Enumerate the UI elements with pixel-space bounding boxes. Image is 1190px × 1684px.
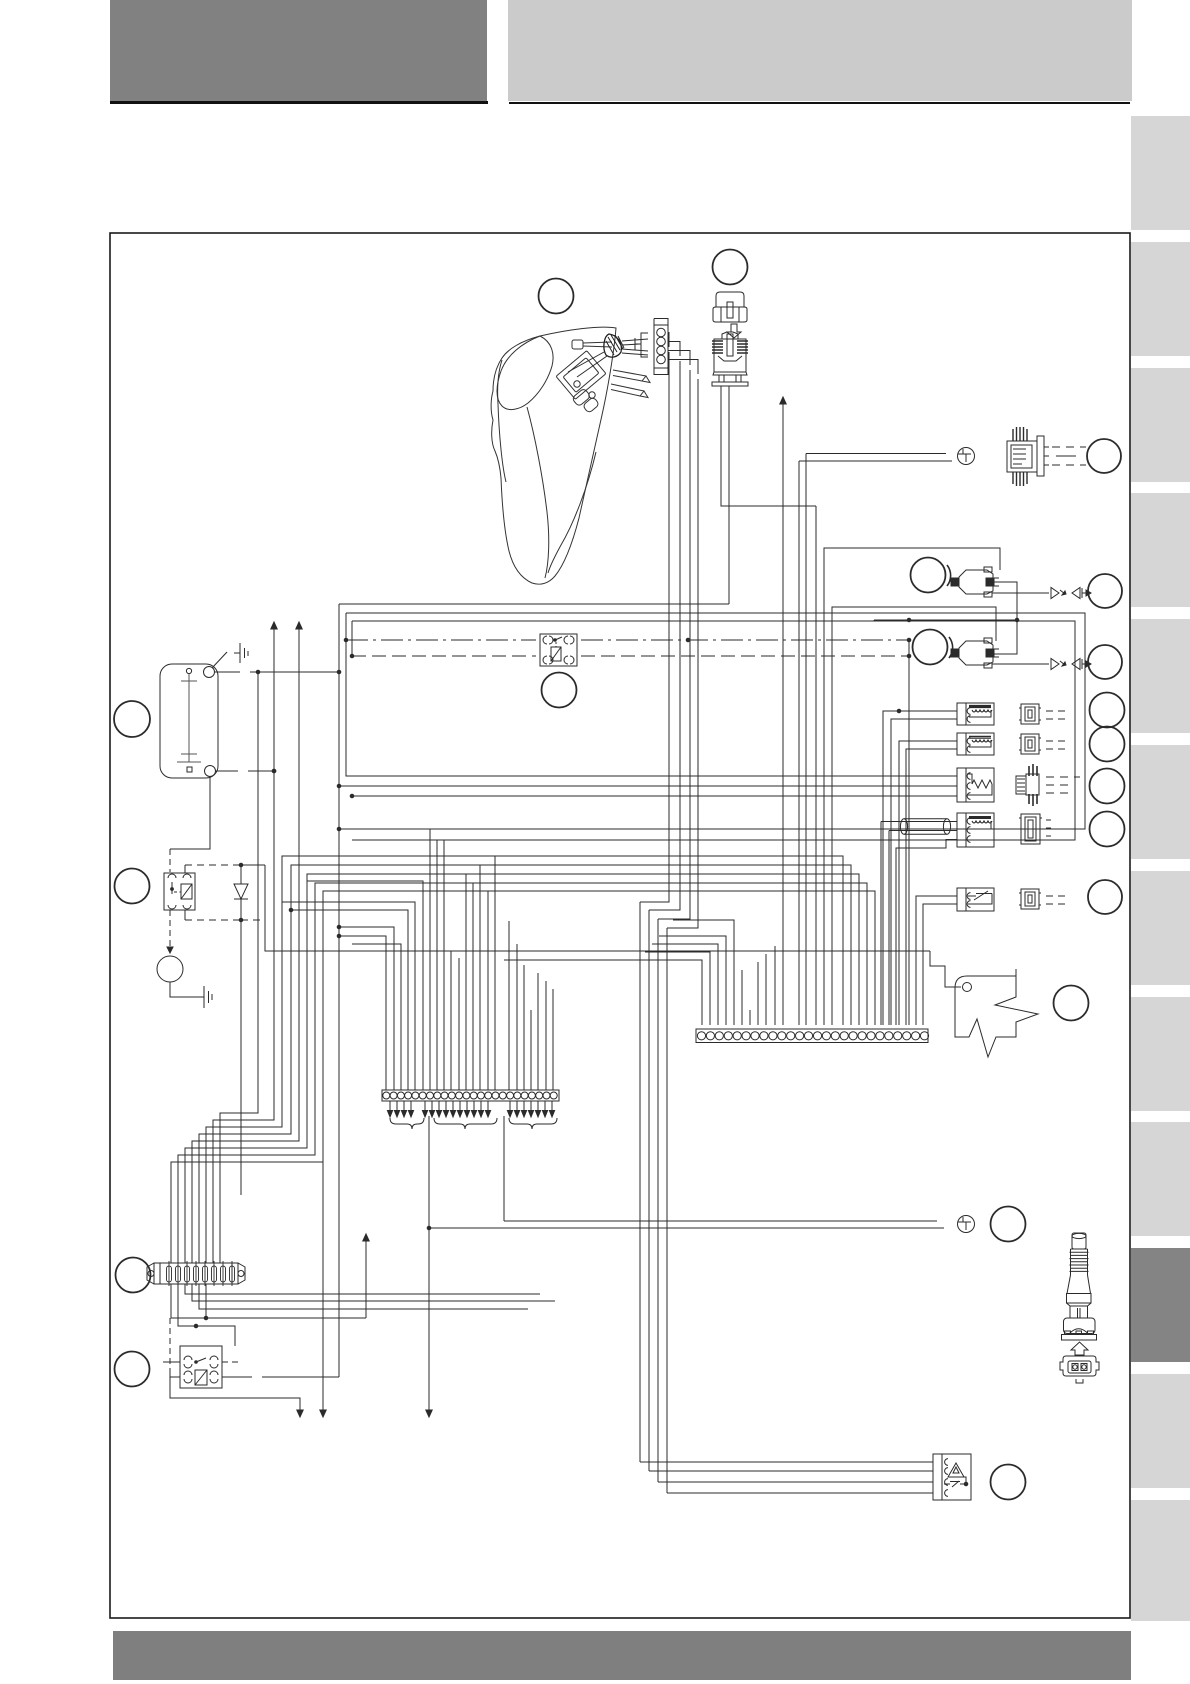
ECU stub 5: [741, 970, 743, 1025]
comb feed 5: [282, 902, 415, 1090]
fuse feed wire 2 (arrow): [213, 625, 274, 1263]
fuse feed wire 1: [220, 672, 258, 1263]
spark gap symbols coil1: [992, 588, 1091, 599]
comb feed 12: [465, 874, 467, 1090]
aux relay ground run: [170, 1377, 300, 1413]
callout circle (battery): [114, 701, 150, 737]
callout circle (diagnostic): [991, 1207, 1026, 1242]
ECU feed 2: [645, 952, 710, 1025]
callout circle 2 (coil1): [911, 558, 951, 593]
comb feed 3: [352, 944, 401, 1090]
callout circle 13: [1087, 439, 1121, 473]
comb feed 8: [436, 840, 438, 1090]
horn2 feed a: [899, 741, 957, 1025]
fuse feed wire 5 (arrow): [192, 625, 299, 1263]
battery B1: [160, 664, 218, 778]
starter motor M: [157, 956, 200, 997]
ground (starter motor): [198, 986, 212, 1008]
callout circle (aux relay): [115, 1352, 150, 1387]
voltage regulator box: [933, 1454, 971, 1500]
bottom footer gray bar: [113, 1631, 1131, 1680]
callout circle (main relay): [542, 673, 577, 708]
ignition coil 1: [951, 567, 999, 597]
comb feed 17: [508, 921, 510, 1090]
coil interconnect wires: [874, 582, 1019, 654]
frame symbol wiring: [930, 951, 961, 987]
comb tail wire A: [428, 1116, 430, 1413]
resistor box: [957, 768, 994, 802]
fuse outlet 5: [178, 1284, 235, 1346]
arrow up from fuse bus: [365, 1238, 367, 1318]
horn 2 box: [957, 733, 994, 755]
wire pair to ground terminal: [799, 454, 952, 1026]
main harness bundles: [163, 506, 1085, 1417]
fuse feed wire 7: [178, 883, 867, 1263]
horn 2 connector: [1019, 734, 1065, 754]
start relay dashed enclosure top: [185, 863, 265, 873]
ECU stub 9: [774, 946, 776, 1025]
comb feed 10: [450, 951, 452, 1090]
comb feed 15: [487, 891, 489, 1090]
fuse outlet 3: [199, 1284, 528, 1309]
big loop bus C2: [352, 621, 1075, 840]
diode D1: [234, 865, 248, 1195]
injector body INJ: [712, 332, 748, 386]
brace group 2: [434, 1118, 497, 1129]
thermistor connector: [1019, 889, 1065, 909]
spark plug cap connector: [1060, 1356, 1099, 1383]
ignition switch lever: [212, 652, 227, 668]
sensor bus wire 2: [339, 785, 957, 787]
speed sensor connector: [1019, 814, 1051, 844]
injector connector cap: [713, 292, 747, 322]
ECU stub 7: [757, 962, 759, 1025]
start relay RL1: [164, 873, 195, 910]
fuse feed wire 6: [185, 874, 859, 1263]
hose stubs: [611, 370, 650, 398]
aux relay wire left: [163, 1361, 180, 1363]
thermistor box (air temp): [957, 888, 994, 911]
horn 1 connector: [1019, 704, 1065, 724]
ECU stub 6: [749, 1010, 751, 1025]
ground (key switch): [234, 643, 248, 663]
ECU feed 4: [659, 936, 726, 1025]
aux relay RL2: [180, 1346, 222, 1388]
sensor bus wire 1: [346, 640, 957, 776]
assembly arrow up: [1071, 1342, 1088, 1355]
comb feed 1: [339, 936, 386, 1090]
diagnostic wire pair: [429, 1221, 944, 1228]
right tab rail: [1131, 116, 1190, 230]
diagram border frame: [110, 233, 1130, 1618]
header light gray block: [508, 0, 1132, 101]
ground terminal lug: [958, 448, 975, 465]
fuse feed wire 4: [199, 865, 851, 1263]
horn 1 box: [957, 703, 994, 725]
sensor bus wire 3: [352, 795, 957, 797]
brace group 3: [509, 1118, 557, 1129]
comb feed 14: [479, 865, 481, 1090]
comb feed 22: [545, 981, 547, 1090]
comb feed 9: [443, 840, 445, 1090]
wire injector down-left: [721, 386, 816, 506]
thermistor feed b: [923, 904, 957, 1025]
comb feed 11: [458, 958, 460, 1090]
callout circle 10 (spark2): [1088, 645, 1122, 679]
callout circle (resistor): [1090, 769, 1125, 804]
relay bus dashed y656: [352, 655, 909, 657]
comb feed 2: [339, 927, 394, 1090]
callout circle 10 (spark1): [1088, 574, 1122, 608]
fuse box F1-F8: [147, 1261, 245, 1286]
start relay dashed enclosure bottom: [185, 910, 265, 922]
comb tail wire B: [503, 1116, 505, 1221]
relay bus dash-dot y640: [346, 639, 909, 641]
bus vertical x909 to ECU: [908, 640, 910, 1025]
big loop bus C1: [339, 613, 1085, 829]
spark gap symbols coil2: [992, 659, 1091, 670]
fuel pump detail: [572, 381, 600, 414]
pump connector wires right and down: [640, 333, 698, 929]
horn1 feed b: [891, 719, 957, 1025]
regulator feed wires: [640, 902, 933, 1493]
fuse outlet 2: [192, 1284, 555, 1301]
aux relay coil left: [169, 1318, 171, 1372]
callout circle 5 (tank): [539, 279, 574, 314]
ECU feed 5: [673, 920, 734, 1025]
ignition coil 2: [951, 638, 999, 668]
callout circle (frame): [1054, 986, 1089, 1021]
frame jagged symbol: [955, 969, 1038, 1057]
instrument comb connector: [382, 1090, 559, 1101]
comb feed 21: [537, 973, 539, 1090]
coil 2 feed wire: [832, 607, 996, 1025]
injector feed vertical: [815, 506, 817, 1025]
comb feed 16: [494, 856, 496, 1090]
fuse feed wire 3: [206, 856, 843, 1263]
long horizontal bus to injector: [339, 603, 729, 605]
pump wires to connector: [622, 339, 648, 355]
ECU feed 1: [504, 960, 702, 1025]
assembly arrow: [727, 324, 741, 338]
down arrow x323: [322, 1162, 324, 1413]
callout circle 2 (coil2): [913, 630, 953, 665]
wire battery plus to bus: [215, 670, 341, 674]
comb feed 4: [291, 910, 408, 1090]
horn2 feed b: [906, 749, 957, 1025]
thermistor feed a: [916, 896, 957, 1025]
callout circle (horn1): [1090, 693, 1125, 728]
resistor connector: [1016, 764, 1080, 806]
fuse feed wire 8: [171, 891, 875, 1263]
aux relay coil right: [222, 1376, 339, 1378]
speed sensor box: [957, 813, 994, 847]
ECU stub 8: [765, 954, 767, 1025]
fuel level sender frame: [556, 351, 606, 400]
comb feed 7: [429, 829, 431, 1090]
wire injector down to bus: [728, 386, 730, 604]
comb feed 6: [307, 881, 423, 1090]
header dark gray block: [110, 0, 487, 101]
callout circle (speed sensor): [1090, 812, 1125, 847]
wire relay to motor dashed: [169, 910, 171, 948]
header light block underline: [509, 102, 1130, 104]
callout circle (start relay): [115, 869, 150, 904]
aux relay wire right: [222, 1361, 240, 1363]
horn1 feed a: [883, 711, 957, 1025]
twisted pair shield: [881, 819, 957, 1025]
fuel tank outline: [491, 327, 616, 584]
callout circle (regulator): [991, 1465, 1026, 1500]
wire battery minus: [170, 769, 276, 872]
wire bus y604 vertical left end: [338, 604, 340, 1377]
main relay RL3: [540, 634, 577, 666]
fuel pump connector P1: [635, 319, 668, 375]
fuel gauge float rod: [568, 334, 624, 377]
coil 1 feed wire: [824, 548, 1000, 1025]
callout circle (thermistor): [1088, 880, 1122, 914]
comb feed 20: [530, 1010, 532, 1090]
connector (injection wiring): [1007, 427, 1086, 486]
comb pin arrows: [387, 1101, 554, 1117]
long bus y951: [265, 865, 930, 951]
callout circle 4 (fuel cap): [713, 250, 748, 285]
fuse outlet 1: [185, 1284, 540, 1294]
brace group 1: [390, 1118, 424, 1129]
spark plug drawing: [1062, 1233, 1097, 1340]
ECU connector strip: [696, 1029, 929, 1043]
signal arrow up x783: [782, 400, 784, 1025]
header dark block underline: [110, 101, 488, 104]
fuse outlet 4: [171, 1284, 366, 1318]
diagnostic terminal lug: [958, 1216, 975, 1233]
comb feed 19: [523, 965, 525, 1090]
comb feed 13: [472, 883, 474, 1090]
callout circle (fuse box): [116, 1258, 151, 1293]
comb feed 23: [552, 989, 554, 1090]
ECU feed 3: [652, 944, 718, 1025]
callout circle (horn2): [1090, 727, 1125, 762]
comb feed 18: [516, 944, 518, 1090]
